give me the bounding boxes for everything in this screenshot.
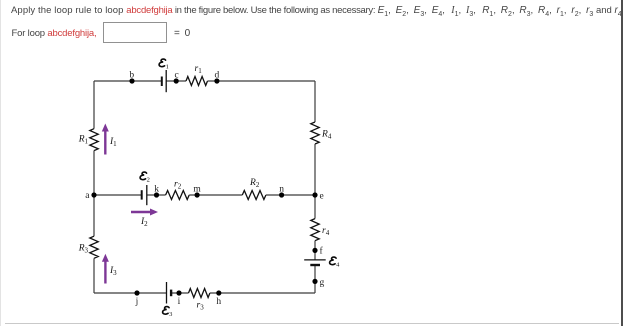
svg-text:a: a (85, 191, 90, 201)
wire right side top (314, 81, 316, 122)
battery E1 short plate (161, 77, 163, 87)
node n (279, 192, 284, 197)
battery E4 short plate (310, 264, 320, 266)
wire R2 to node e (266, 194, 315, 196)
wire R1 to node a to R3 (93, 151, 95, 237)
node a (91, 192, 96, 197)
node e (312, 192, 317, 197)
resistor R2 (242, 191, 266, 200)
svg-text:n: n (279, 184, 284, 194)
resistor r1 (186, 77, 208, 86)
node i (176, 290, 181, 295)
svg-text:1: 1 (166, 63, 169, 70)
svg-text:4: 4 (336, 261, 340, 268)
node g (312, 279, 317, 284)
wire battery E1 to resistor r1 (166, 80, 186, 82)
wire R3 to bottom-left corner (93, 258, 95, 293)
svg-text:i: i (178, 297, 181, 307)
svg-text:r4: r4 (322, 226, 330, 237)
node j (134, 290, 139, 295)
wire top-left to battery E1 (94, 80, 162, 82)
svg-text:r2: r2 (174, 180, 182, 191)
svg-text:R1: R1 (78, 135, 89, 146)
wire middle: node a to battery E2 (94, 194, 142, 196)
svg-text:I3: I3 (109, 266, 117, 277)
equals zero (174, 28, 191, 39)
svg-text:d: d (215, 71, 220, 81)
svg-text:r1: r1 (195, 64, 203, 75)
label E3 (163, 307, 170, 315)
label E1 (159, 59, 166, 67)
battery E3 short plate (170, 290, 172, 297)
node c (174, 78, 179, 83)
node b (129, 78, 134, 83)
wire battery E4 to bottom-right corner (314, 265, 316, 293)
resistor R4 (311, 122, 319, 144)
svg-text:j: j (135, 297, 139, 307)
bottom separator (5, 323, 619, 324)
wire r1 to top-right corner (208, 80, 316, 82)
svg-text:I2: I2 (140, 217, 148, 228)
label E4 (330, 257, 337, 265)
resistor R1 (90, 129, 98, 151)
wire battery E3 to r3 (171, 292, 188, 294)
wire r4 to battery E4 (314, 241, 316, 260)
node h (216, 290, 221, 295)
wire r3 to bottom-right corner (210, 292, 315, 294)
node f (312, 248, 317, 253)
wire r2 to R2 (189, 194, 242, 196)
svg-text:I1: I1 (109, 137, 117, 148)
wire R4 to node e to r4 (314, 144, 316, 219)
svg-text:R4: R4 (321, 130, 332, 141)
svg-text:b: b (129, 71, 134, 81)
svg-text:R2: R2 (249, 178, 260, 189)
right scrollbar edge (621, 0, 623, 326)
answer input box (103, 22, 167, 43)
heading line 2 (12, 28, 97, 39)
node d (214, 78, 219, 83)
battery E1 long plate (165, 70, 167, 92)
resistor r3 (189, 289, 210, 298)
wire battery E2 to r2 (147, 194, 166, 196)
svg-text:2: 2 (147, 176, 150, 183)
node k (154, 192, 159, 197)
wire bottom-left corner to battery E3 (94, 292, 167, 294)
svg-text:R3: R3 (78, 244, 89, 255)
battery E2 short plate (141, 190, 143, 199)
wire left side top (93, 81, 95, 129)
resistor R3 (90, 236, 98, 258)
svg-text:g: g (320, 278, 325, 288)
current arrow I3 (104, 261, 106, 284)
battery E2 long plate (146, 185, 148, 205)
resistor r4 (311, 219, 319, 241)
svg-text:m: m (193, 184, 201, 194)
current arrow I1 (104, 131, 106, 155)
label E2 (140, 172, 147, 180)
battery E3 long plate (166, 282, 168, 304)
svg-text:k: k (154, 184, 159, 194)
svg-text:f: f (320, 245, 324, 256)
left page edge (0, 0, 1, 326)
heading line 1 (11, 5, 623, 18)
current arrow I2 (131, 211, 151, 213)
svg-text:3: 3 (169, 311, 172, 318)
svg-text:h: h (216, 297, 221, 307)
svg-text:r3: r3 (197, 301, 205, 312)
node m (195, 192, 200, 197)
svg-text:e: e (320, 191, 324, 201)
battery E4 long plate (304, 259, 326, 261)
resistor r2 (166, 191, 190, 200)
svg-text:c: c (174, 71, 178, 81)
